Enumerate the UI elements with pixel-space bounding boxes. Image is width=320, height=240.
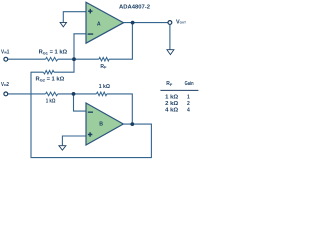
svg-text:1: 1	[187, 95, 190, 101]
resistor RG2 zigzag	[43, 70, 54, 74]
wire RG1 to RF	[58, 58, 99, 60]
op-amp A plus sign	[88, 9, 92, 14]
wire RG2 to left vertical bus down to bottom rail	[31, 72, 43, 158]
svg-text:ADA4807-2: ADA4807-2	[119, 5, 150, 11]
wire feedback B corner down to output node	[107, 94, 133, 124]
svg-text:4 kΩ: 4 kΩ	[165, 107, 178, 113]
resistor 1k input B zigzag	[46, 92, 58, 96]
op-amp A	[86, 2, 124, 43]
svg-text:A: A	[97, 22, 101, 28]
resistor RG1 zigzag	[46, 57, 58, 61]
terminal Vout	[168, 21, 172, 25]
svg-text:2: 2	[187, 101, 190, 107]
wire node N1 down to RG2 row	[54, 59, 75, 72]
wire RF to feedback corner up to output node	[109, 23, 132, 60]
wire Vout down to ref symbol	[169, 25, 171, 50]
op-amp A minus sign	[88, 33, 94, 34]
ground symbol op-amp A	[60, 22, 66, 27]
node N4	[130, 122, 134, 126]
wire to feedback resistor B	[58, 93, 97, 95]
wire output B loop right-down-left	[31, 124, 152, 158]
ground symbol op-amp B	[59, 146, 66, 151]
op-amp B	[86, 103, 123, 145]
svg-text:RF: RF	[166, 81, 173, 87]
terminal Vin2	[4, 92, 8, 96]
wire node N1 up to inverting input A	[73, 34, 86, 59]
resistor 1k feedback B zigzag	[96, 92, 106, 96]
wire Vin1 to RG1	[8, 58, 46, 60]
svg-text:4: 4	[187, 107, 190, 113]
ground symbol Vout	[167, 50, 174, 55]
terminal Vin1	[4, 57, 8, 61]
svg-text:1 kΩ: 1 kΩ	[46, 99, 56, 105]
svg-text:RF: RF	[100, 64, 107, 70]
node N1	[72, 57, 76, 61]
wire Vin2 to input resistor	[8, 93, 46, 95]
wire output A to Vout terminal	[123, 22, 168, 24]
wire noninverting input A to ground stub	[63, 12, 86, 23]
svg-text:1 kΩ: 1 kΩ	[99, 84, 110, 90]
svg-text:B: B	[99, 121, 103, 127]
svg-text:1 kΩ: 1 kΩ	[165, 95, 178, 101]
op-amp B plus sign	[88, 132, 92, 136]
op-amp B minus sign	[88, 112, 93, 113]
resistor RF zigzag	[99, 57, 109, 61]
wire node N3 down to inverting input B	[73, 94, 86, 111]
node N3	[72, 92, 76, 96]
node N2	[131, 21, 135, 25]
svg-text:2 kΩ: 2 kΩ	[165, 101, 178, 107]
table rule	[160, 89, 198, 91]
wire noninverting input B to ground stub	[62, 136, 86, 145]
svg-text:Gain: Gain	[185, 81, 194, 87]
